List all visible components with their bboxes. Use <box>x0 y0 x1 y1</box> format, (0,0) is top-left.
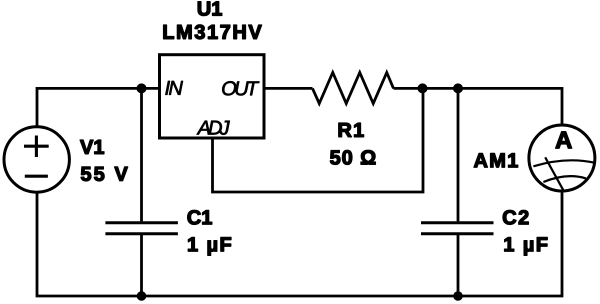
pin label OUT <box>222 81 259 95</box>
V1 minus sign <box>25 175 48 178</box>
regulator U1 box <box>160 55 265 138</box>
node: junction dot at C2 branch <box>453 83 463 93</box>
label C1 <box>188 210 212 224</box>
label 50 Ω <box>330 150 375 164</box>
ammeter AM1 circle <box>529 125 595 191</box>
label R1 <box>339 123 364 137</box>
node: junction dot where ADJ feedback meets OUT net <box>418 83 428 93</box>
label 55 V <box>81 167 128 181</box>
wire: OUT pin to resistor R1 left lead <box>263 87 313 90</box>
wire: branch down from IN node to C1 top plate <box>140 88 143 221</box>
wire: V1 top lead up and across to U1 IN pin <box>37 88 160 128</box>
label V1 <box>80 140 104 154</box>
label 1 µF of C2 <box>505 237 548 255</box>
wire: C2 bottom lead <box>457 235 460 296</box>
pin label IN <box>165 81 183 95</box>
label C2 <box>503 210 528 224</box>
node: junction dot bottom rail at C1 <box>137 291 147 301</box>
capacitor C2 plates <box>421 223 494 234</box>
wire: C1 bottom lead <box>140 235 143 296</box>
label AM1 <box>474 153 518 167</box>
resistor R1 zigzag <box>313 73 394 104</box>
wire: ADJ feedback path down, right and up to OUT net <box>213 88 424 192</box>
wire: branch down from OUT net to C2 top plate <box>457 88 460 221</box>
label U1 <box>198 2 222 16</box>
voltage source V1 circle <box>4 127 69 192</box>
ammeter lower scale arc <box>543 176 586 182</box>
label LM317HV <box>164 25 262 39</box>
ammeter needle <box>545 157 563 190</box>
node: junction dot bottom rail at C2 <box>453 291 463 301</box>
V1 plus sign <box>24 136 49 158</box>
ammeter upper scale arc <box>533 160 594 166</box>
wire: resistor R1 to ammeter top lead <box>394 88 563 126</box>
label 1 µF of C1 <box>188 237 231 255</box>
ammeter letter A <box>556 132 572 149</box>
capacitor C1 plates <box>105 223 177 234</box>
pin label ADJ <box>197 121 230 135</box>
wire: bottom rail with left riser to V1 and right riser to AM1 <box>37 190 562 296</box>
node: junction dot at IN net <box>137 83 147 93</box>
